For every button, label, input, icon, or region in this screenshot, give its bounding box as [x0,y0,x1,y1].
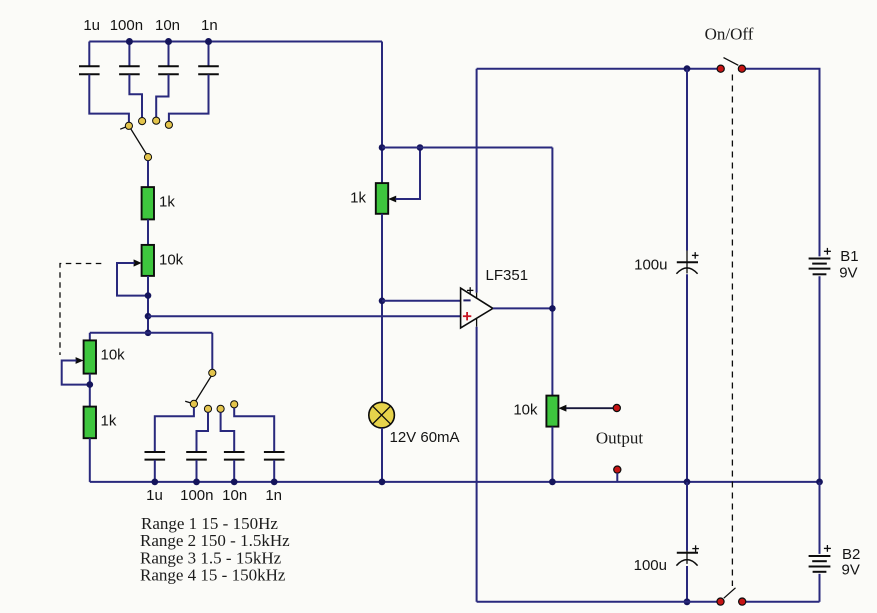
svg-text:10k: 10k [513,402,538,419]
wire 1k to 10k pot [147,219,149,245]
svg-text:Output: Output [596,429,644,448]
lamp 12V 60mA [369,402,460,446]
output terminal (ground) [614,466,621,482]
svg-text:Range 1 15 - 150Hz: Range 1 15 - 150Hz [141,514,278,533]
svg-text:100n: 100n [110,17,143,34]
label Output [596,429,644,448]
switch On/Off (top pole) [705,25,754,73]
junction rail lamp [379,479,386,486]
battery B1 9V [809,248,859,282]
svg-text:1n: 1n [201,17,218,34]
svg-text:10k: 10k [159,252,184,269]
wire V+ top rail (left of switch) [477,68,717,70]
wire V+ supply to op-amp [476,69,478,298]
SW2 contact 1 [190,400,197,407]
label Range table [140,514,290,585]
wire 1k pot bottom to inverting node [381,214,383,403]
SW2 contact 2 [204,405,211,412]
SW1 contact 3 [153,117,160,124]
potentiometer 10k (output level) [513,396,613,427]
battery B2 9V [809,482,861,602]
svg-text:On/Off: On/Off [705,25,754,44]
wire 1k down to ground rail [89,438,91,482]
svg-text:B1: B1 [840,248,858,265]
svg-text:1k: 1k [159,194,175,211]
junction on top bus at 1n [205,38,212,45]
svg-text:9V: 9V [842,562,860,579]
svg-text:100u: 100u [634,557,667,574]
junction top rail 100u [684,65,691,72]
SW1 contact 1 [125,122,132,129]
SW1 contact 4 [165,121,172,128]
svg-text:Range 3 1.5 - 15kHz: Range 3 1.5 - 15kHz [140,548,282,567]
wire volume pot to ground rail [551,427,553,482]
svg-text:B2: B2 [842,546,860,563]
wire SW1 pole to R 1k [147,161,149,187]
switch On/Off (bottom pole) [717,588,746,605]
SW1 pole [144,154,151,161]
capacitor C 10n (top bank) [155,17,180,117]
junction output node [549,305,556,312]
junction rail B1 [816,479,823,486]
svg-text:9V: 9V [839,265,857,282]
svg-text:10n: 10n [222,487,247,504]
potentiometer 1k (gain trim) [350,148,420,214]
wire lower branch horizontal [90,332,213,334]
junction rail 1n [271,479,278,486]
svg-text:Range 4 15 - 150kHz: Range 4 15 - 150kHz [140,566,286,585]
dashed gang link between 10k pots [60,264,101,356]
rotary range switch SW2 (lower) lever [185,376,211,404]
svg-text:1k: 1k [350,190,366,207]
ground rail [90,481,820,483]
wire V- bottom rail (right of switch) [746,601,820,603]
output terminal (hot) [613,404,620,411]
SW1 contact 2 [139,118,146,125]
wire V+ top rail (right of switch) to B1 [746,69,820,257]
wire from top bus down to 1k pot chain [381,42,383,184]
SW2 pole [209,369,216,376]
junction on top bus at 100n [126,38,133,45]
wire feedback to output column [382,147,552,149]
SW2 contact 3 [217,405,224,412]
junction lower pot wiper node [87,381,94,388]
wire node to op-amp non-inverting input [148,315,461,317]
junction pot wiper node [145,292,152,299]
wire V- supply from op-amp [476,319,478,602]
capacitor C 10n (bottom bank) [221,412,248,504]
potentiometer 10k (lower, freq gang B) [62,333,125,385]
junction op-amp + feed node [145,313,152,320]
svg-text:100n: 100n [180,487,213,504]
wire V- bottom rail (left of switch) [477,601,717,603]
rotary range switch SW1 (upper) lever [120,126,147,156]
svg-text:100u: 100u [634,257,667,274]
svg-text:10n: 10n [155,17,180,34]
junction rail 1u [151,479,158,486]
junction bottom rail 100u [684,598,691,605]
capacitor C 1u (bottom bank) [145,408,194,505]
svg-text:LF351: LF351 [486,267,529,284]
junction rail 100n [193,479,200,486]
wire 10k pot bottom to node [147,276,149,333]
junction top of 1k pot column [379,144,386,151]
svg-text:1k: 1k [101,413,117,430]
dashed gang link of On/Off switch [731,75,733,587]
resistor 1k (upper left chain) [142,187,176,219]
wire top-left bus [89,41,382,43]
svg-text:1u: 1u [146,487,163,504]
capacitor C 1u (top bank) [79,17,129,122]
wire inverting node to op-amp - input [382,300,461,302]
wire op-amp output [493,307,553,309]
svg-text:1n: 1n [265,487,282,504]
capacitor 100u (upper supply) [634,69,698,482]
capacitor C 100n (bottom bank) [180,412,213,504]
capacitor C 1n (bottom bank) [234,408,284,504]
potentiometer 10k (upper, freq gang A) [117,245,184,296]
junction on top bus at 10n [165,38,172,45]
junction lower branch node [145,330,152,337]
svg-text:Range 2 150 - 1.5kHz: Range 2 150 - 1.5kHz [140,531,290,550]
svg-text:12V 60mA: 12V 60mA [390,429,460,446]
wire B1 negative to ground rail [819,276,821,482]
resistor 1k (lower left) [84,407,117,439]
junction rail upper 100u [684,479,691,486]
SW2 contact 4 [231,401,238,408]
junction wiper feedback tap [417,144,424,151]
wire output column down to volume pot [551,148,553,396]
op-amp U1 LF351 [461,267,528,328]
wire lamp to ground rail [381,428,383,482]
svg-text:1u: 1u [83,17,100,34]
wire pot bottom to 1k [89,374,91,407]
capacitor C 1n (top bank) [169,17,219,121]
capacitor 100u (lower supply) [634,482,699,602]
junction rail 10n [231,479,238,486]
capacitor C 100n (top bank) [110,17,143,118]
junction inverting node [379,298,386,305]
junction rail volume pot [549,479,556,486]
wire to SW2 pole [211,333,213,370]
svg-text:10k: 10k [101,347,126,364]
